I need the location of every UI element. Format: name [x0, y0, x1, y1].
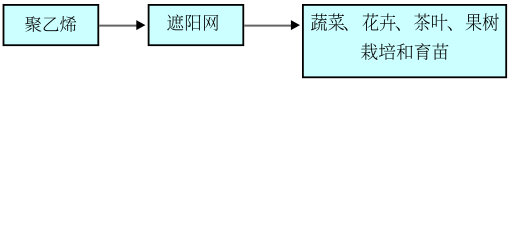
process box 1: 聚乙烯 (polyethylene) [4, 5, 99, 45]
arrow from box 2 to box 3 [244, 25, 292, 27]
label line 2 in box 3: 栽培和育苗 [361, 43, 448, 60]
label line 1 in box 3: 蔬菜、花卉、茶叶、果树 [311, 13, 499, 31]
label 遮阳网 in box 2 [167, 14, 218, 30]
process box 3: 蔬菜、花卉、茶叶、果树栽培和育苗 (cultivation) [303, 5, 506, 77]
process box 2: 遮阳网 (shade net) [149, 5, 244, 45]
arrow from box 1 to box 2 [99, 25, 137, 27]
label 聚乙烯 in box 1 [25, 16, 76, 32]
